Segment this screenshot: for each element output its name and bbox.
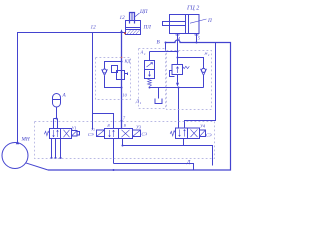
svg-text:СЭ: СЭ [88, 132, 94, 137]
svg-text:У4: У4 [200, 124, 205, 129]
svg-text:МН: МН [21, 137, 30, 143]
svg-text:1: 1 [144, 52, 146, 56]
svg-text:А: А [62, 93, 67, 99]
svg-text:У1: У1 [72, 126, 77, 131]
svg-text:10: 10 [123, 93, 128, 98]
svg-text:У2: У2 [91, 128, 95, 132]
svg-text:7: 7 [123, 116, 126, 121]
svg-text:1: 1 [140, 101, 142, 105]
svg-text:8: 8 [108, 123, 111, 128]
svg-text:СЭ: СЭ [206, 133, 212, 138]
svg-text:СЭ: СЭ [142, 132, 148, 137]
svg-text:1: 1 [208, 53, 210, 57]
svg-text:А: А [140, 50, 144, 55]
svg-text:ПЛ: ПЛ [143, 25, 152, 31]
svg-text:4: 4 [178, 36, 180, 41]
svg-text:ГЦ 2: ГЦ 2 [186, 6, 199, 12]
svg-text:м: м [204, 51, 208, 56]
svg-text:9: 9 [124, 123, 127, 128]
svg-text:В: В [157, 40, 161, 46]
svg-text:У3: У3 [136, 125, 141, 130]
svg-text:ЦП: ЦП [139, 9, 148, 15]
svg-text:12: 12 [120, 15, 126, 21]
svg-text:П: П [207, 18, 212, 24]
svg-text:5: 5 [198, 36, 200, 41]
svg-text:Д: Д [186, 160, 191, 166]
svg-text:КД: КД [124, 59, 132, 64]
svg-text:12: 12 [91, 25, 97, 31]
